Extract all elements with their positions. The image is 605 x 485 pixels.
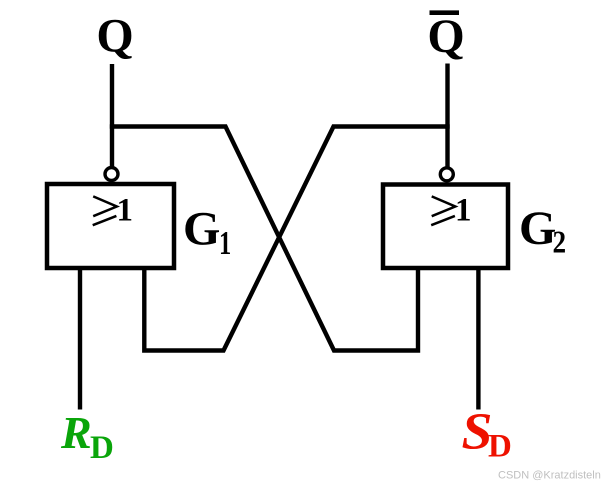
svg-text:D: D [90, 430, 114, 466]
watermark [498, 470, 601, 482]
svg-text:G: G [519, 202, 556, 255]
svg-text:R: R [60, 407, 92, 458]
svg-text:2: 2 [553, 226, 567, 260]
svg-text:1: 1 [219, 225, 231, 262]
svg-text:1: 1 [116, 192, 133, 228]
gate G2 qualifying symbol >=1 [431, 192, 471, 228]
svg-text:1: 1 [455, 192, 472, 228]
node Qbar output label [427, 10, 464, 63]
svg-text:CSDN @Kratzdisteln: CSDN @Kratzdisteln [498, 470, 601, 482]
wire cross-couple from Q to G2 lower input [112, 127, 418, 351]
wire cross-couple from Qbar to G1 lower input [144, 127, 447, 351]
label G2 [519, 202, 566, 260]
gate G1 qualifying symbol >=1 [93, 192, 133, 228]
wire input SD to G2 [476, 268, 480, 410]
node Q output label [96, 9, 133, 62]
inverter bubble on G1 output [105, 168, 118, 181]
svg-text:G: G [183, 203, 220, 256]
label G1 [183, 203, 231, 262]
svg-text:D: D [488, 429, 512, 465]
wire input RD to G1 [78, 268, 82, 410]
wire Qbar vertical to G2 bubble [445, 64, 449, 168]
inverter bubble on G2 output [440, 168, 453, 181]
label SD input (red) [462, 402, 512, 464]
gate G2 box (NOR) [383, 185, 508, 269]
label RD input (green) [60, 407, 114, 466]
gate G1 box (NOR) [47, 184, 174, 268]
svg-text:Q: Q [96, 9, 133, 62]
wire Q vertical to G1 bubble [110, 64, 114, 167]
junction T of Qbar wire and cross-couple branch [445, 124, 449, 128]
junction T of Q wire and cross-couple branch [110, 124, 114, 128]
svg-text:Q: Q [427, 10, 464, 63]
